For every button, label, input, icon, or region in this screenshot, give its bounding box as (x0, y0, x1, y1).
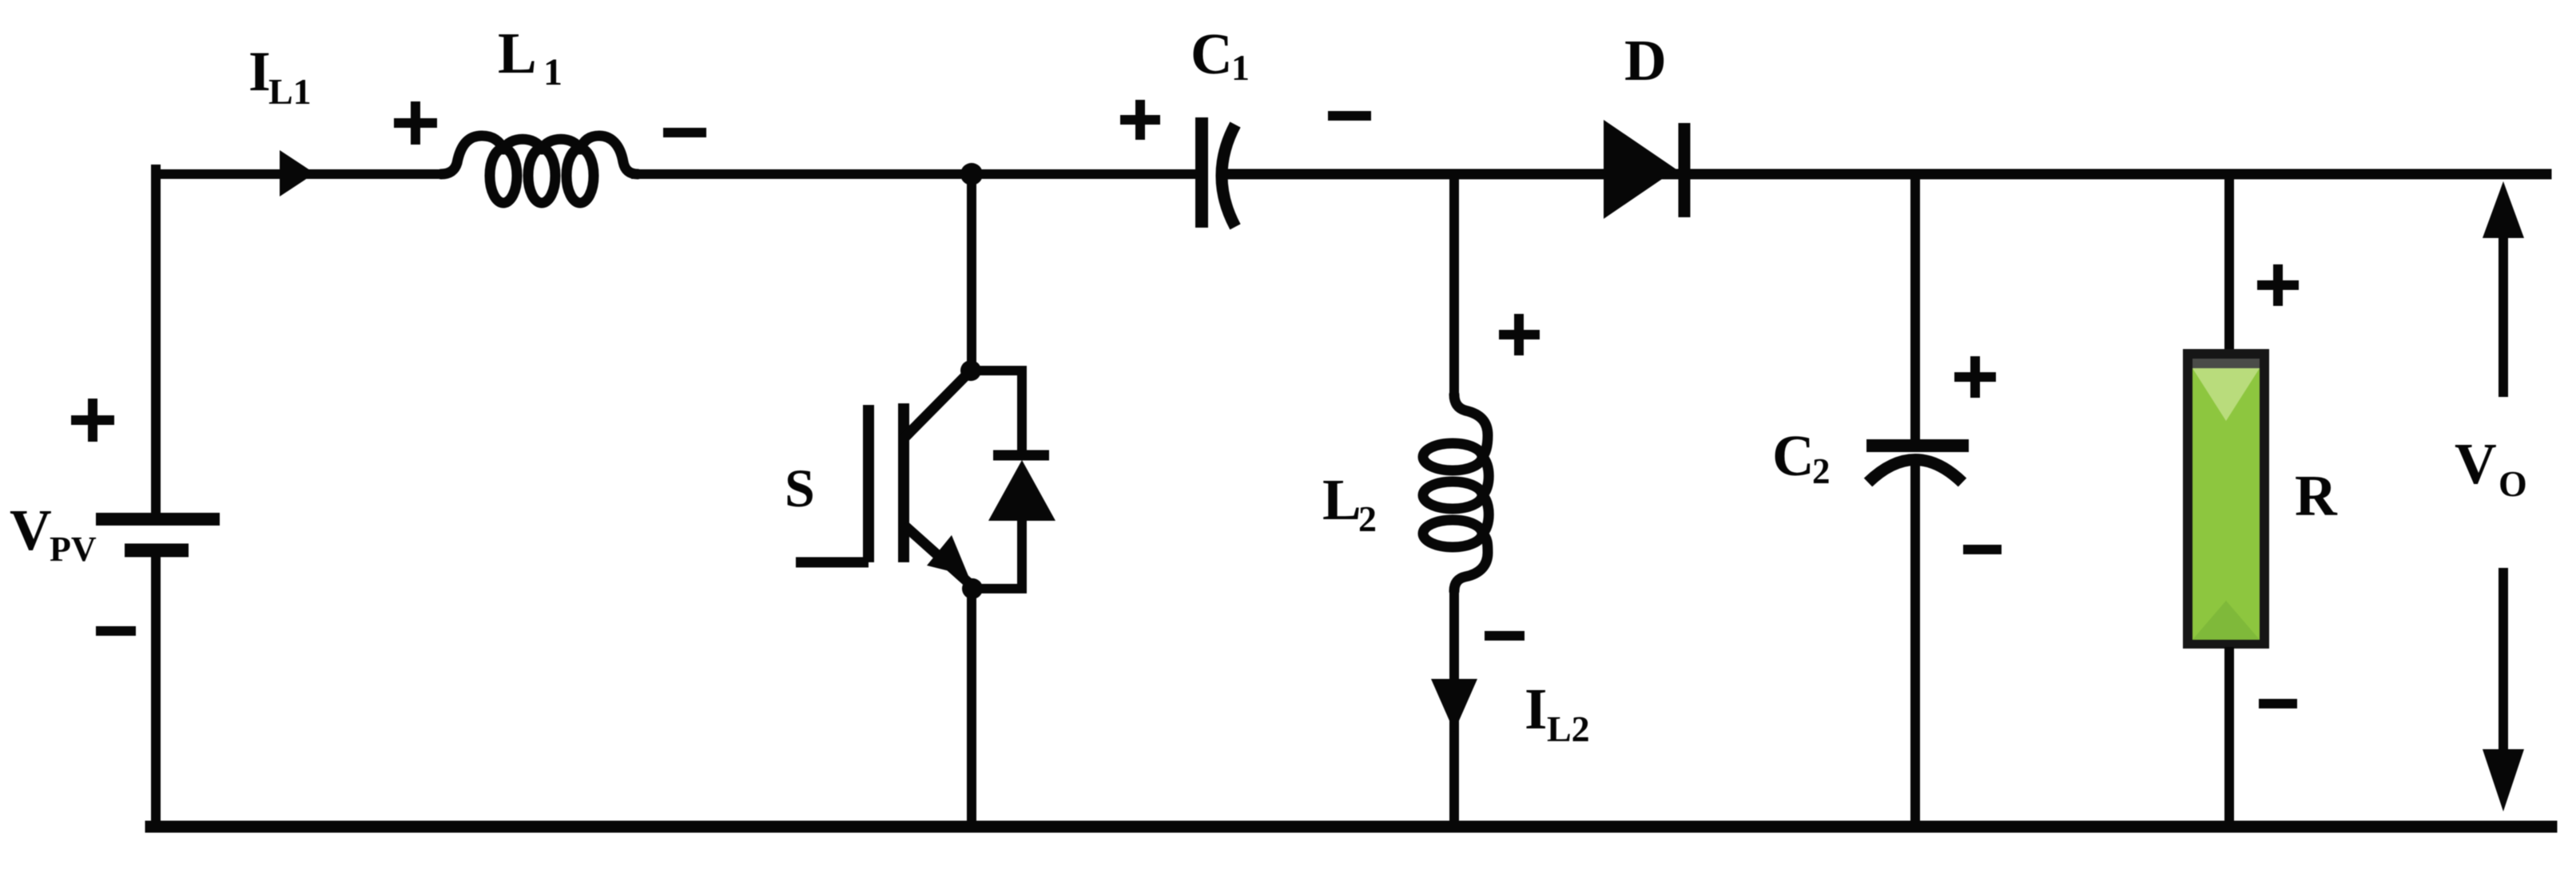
wire: top rail left segment (source to L1) (156, 169, 441, 179)
wire: bottom rail (151, 821, 2551, 833)
svg-text:1: 1 (543, 51, 563, 93)
battery plus sign (71, 399, 114, 442)
wire: top rail right segment (C1 to right end) (1230, 169, 2546, 180)
transistor S (IGBT) gate lead (796, 558, 869, 568)
svg-text:S: S (785, 458, 815, 518)
transistor S collector line (904, 372, 969, 438)
svg-text:L2: L2 (1547, 708, 1590, 749)
diode (antiparallel) bottom link (976, 518, 1022, 589)
wire: C2 branch upper (1910, 174, 1920, 439)
minus sign L2 (1485, 631, 1525, 641)
svg-text:L: L (1322, 467, 1362, 532)
capacitor C2 curved plate (1868, 460, 1962, 483)
current arrowhead I_L2 (1431, 679, 1477, 732)
plus sign R (2257, 264, 2299, 306)
battery V_PV long plate (96, 513, 220, 526)
inductor L2 coil (rotated copy of L1 coil) (1423, 395, 1489, 591)
wire: left vertical wire lower (source bottom) (151, 554, 161, 827)
transistor S emitter line (904, 525, 972, 585)
wire: L2 branch lower (1449, 593, 1459, 827)
svg-text:V: V (10, 498, 52, 562)
battery minus sign (96, 626, 136, 636)
svg-text:R: R (2295, 463, 2338, 528)
plus sign C1 (1120, 100, 1160, 140)
node A junction dot on top rail (960, 163, 983, 185)
minus sign C2 (1963, 545, 2002, 554)
node: collector junction dot (960, 360, 981, 381)
wire: C2 branch lower (1910, 465, 1920, 827)
svg-text:L1: L1 (268, 71, 312, 112)
svg-text:V: V (2455, 431, 2497, 496)
svg-text:I: I (248, 41, 271, 103)
transistor S gate bar (863, 405, 874, 562)
transistor S body bar (898, 403, 909, 562)
node: emitter junction dot (962, 578, 983, 599)
battery V_PV short plate (125, 544, 189, 558)
transistor S emitter arrowhead (927, 535, 968, 576)
minus sign L1 (663, 128, 706, 137)
diode (antiparallel) triangle (988, 460, 1055, 521)
wire: left vertical wire upper (source top) (151, 169, 161, 512)
Vo arrow upper (pointing up) (2498, 232, 2508, 397)
resistor R green block (2183, 349, 2269, 649)
diode (antiparallel) cathode bar (993, 450, 1049, 461)
wire: top rail middle segment (L1 to C1 left plate) (636, 169, 1197, 179)
diode (antiparallel on S) top link (976, 371, 1022, 452)
inductor L1 coil (441, 136, 638, 203)
diode D cathode bar (1679, 123, 1691, 217)
capacitor C1 straight plate (1195, 117, 1208, 228)
Vo arrow lower (pointing down) (2498, 568, 2508, 752)
svg-text:2: 2 (1812, 451, 1831, 491)
current arrow I_L1 (280, 150, 315, 196)
plus sign C2 (1954, 356, 1996, 398)
wire: L2 branch upper (1449, 174, 1459, 395)
wire: R branch lower (2224, 647, 2234, 827)
capacitor C2 flat plate (1866, 439, 1969, 452)
minus sign R (2259, 699, 2297, 708)
minus sign C1 (1328, 111, 1371, 121)
svg-text:PV: PV (50, 530, 97, 569)
svg-text:O: O (2498, 463, 2527, 504)
svg-text:C: C (1772, 423, 1815, 488)
plus sign L2 (1499, 314, 1540, 355)
wire: switch branch lower (967, 589, 976, 827)
svg-text:C: C (1191, 22, 1233, 86)
wire: R branch upper (2224, 174, 2234, 351)
svg-text:I: I (1525, 677, 1547, 741)
capacitor C1 curved plate (1222, 125, 1235, 227)
svg-text:D: D (1624, 28, 1667, 93)
svg-text:2: 2 (1358, 498, 1377, 539)
wire: switch branch upper (967, 174, 976, 371)
diode D triangle (1604, 120, 1676, 219)
plus sign L1 (394, 101, 437, 145)
svg-text:1: 1 (1231, 47, 1250, 88)
svg-text:L: L (498, 21, 537, 85)
